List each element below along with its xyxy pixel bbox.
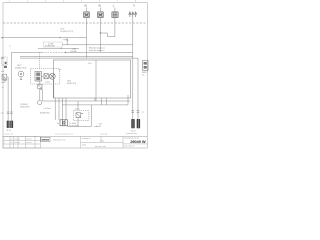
fuse F2 left dark bbox=[10, 121, 13, 128]
svg-text:4): 4) bbox=[84, 4, 86, 8]
svg-text:1: 1 bbox=[9, 1, 10, 3]
svg-text:29049 W: 29049 W bbox=[130, 139, 146, 144]
solenoid valve M12 symbol bbox=[18, 71, 24, 80]
terminal ticks on left wires bbox=[7, 112, 13, 113]
svg-text:J1 J1: J1 J1 bbox=[6, 130, 11, 132]
svg-text:xx: xx bbox=[9, 46, 11, 48]
wire from U7 right bbox=[68, 125, 92, 127]
svg-text:V: V bbox=[133, 4, 135, 8]
wire horizontal N-line bbox=[1, 37, 87, 39]
svg-text:M-(K7-M7): M-(K7-M7) bbox=[20, 106, 29, 108]
svg-text:xxAxxM: xxAxxM bbox=[94, 125, 101, 128]
wire L bottom right of enclosure bbox=[62, 95, 128, 105]
switch box S1 bbox=[112, 8, 118, 18]
svg-text:xxxx xxxx x xx: xxxx xxxx x xx bbox=[53, 139, 66, 141]
wire below contact bbox=[77, 117, 79, 126]
svg-text:8: 8 bbox=[135, 1, 136, 3]
sensor mark inside B1 bbox=[5, 62, 7, 64]
net label VT2 N-(VR-VT) bbox=[61, 28, 74, 33]
svg-text:N-(VR-VT2.2): N-(VR-VT2.2) bbox=[61, 31, 74, 33]
svg-text:M-(MX-XM): M-(MX-XM) bbox=[45, 46, 55, 48]
svg-text:xxlxx fxx Ixxpxx x: xxlxx fxx Ixxpxx x bbox=[89, 50, 104, 52]
svg-text:x/x: x/x bbox=[59, 69, 61, 71]
label below A3W bbox=[142, 71, 146, 76]
svg-text:xx.x xxx - xxx: xx.x xxx - xxx bbox=[95, 146, 106, 148]
contact box K4 bbox=[84, 8, 90, 18]
wire branch node to S1 drop bbox=[100, 33, 115, 37]
wires from enclosure bottom down bbox=[54, 98, 56, 120]
svg-text:4x: 4x bbox=[142, 75, 144, 77]
off-page arrow on N-line bbox=[1, 37, 3, 39]
svg-text:x.xx.x xx x xx: x.xx.x xx x xx bbox=[124, 146, 135, 148]
label 1M1 bbox=[67, 81, 77, 85]
logo box EPLAN bbox=[41, 137, 50, 141]
dashed drop wire into pump group bbox=[39, 52, 41, 68]
label J7RG/W bbox=[20, 104, 29, 108]
svg-text:xxxxx: xxxxx bbox=[82, 145, 87, 147]
svg-text:Wxxtxxt Ixxpxx xx: Wxxtxxt Ixxpxx xx bbox=[89, 46, 105, 49]
dashed aux contact box K9 bbox=[74, 110, 89, 120]
pump motor circle M bbox=[49, 73, 55, 79]
label VT2 small bbox=[71, 49, 77, 53]
title block outer bbox=[3, 135, 147, 137]
wire from contactor down bbox=[39, 81, 41, 84]
wire continuation to K6 drop bbox=[66, 51, 133, 53]
label beside U7 bbox=[69, 123, 78, 127]
svg-text:xXx: xXx bbox=[1, 71, 4, 73]
left margin dashed sensor box B1 bbox=[2, 57, 8, 65]
svg-text:xx.xx.xx: xx.xx.xx bbox=[14, 142, 20, 144]
value label box 4X/W bbox=[43, 42, 62, 47]
wire branch to lower bus bbox=[40, 90, 43, 102]
svg-text:xxx xxx: xxx xxx bbox=[26, 139, 32, 141]
contact symbol in K9 bbox=[76, 113, 83, 118]
svg-text:4: 4 bbox=[63, 1, 64, 3]
svg-text:x.x: x.x bbox=[142, 111, 144, 113]
revision table bbox=[3, 136, 40, 148]
svg-text:2: 2 bbox=[27, 1, 28, 3]
wire horizontal from left corner bbox=[12, 51, 43, 53]
path text row above title block bbox=[4, 134, 108, 136]
wire pump circle down to heater block bbox=[53, 79, 55, 98]
node on corner line bbox=[65, 52, 66, 53]
revision table text bbox=[4, 139, 32, 145]
svg-text:x (xx): x (xx) bbox=[45, 81, 50, 83]
label M12 bbox=[15, 65, 27, 69]
plug connector W1 (three pins) bbox=[129, 12, 137, 17]
wire from S1 down bbox=[114, 18, 116, 37]
svg-text:M-(MX-XXX): M-(MX-XXX) bbox=[15, 67, 27, 69]
wire left vertical bus bbox=[11, 52, 13, 120]
svg-text:x (4-x): x (4-x) bbox=[63, 39, 69, 41]
wire right vertical rail 2 bbox=[137, 58, 139, 119]
label Mxxtxx Ixxpxx bbox=[89, 46, 105, 52]
wire horizontal mid line bbox=[62, 44, 133, 46]
left plug component X9 bbox=[2, 74, 7, 81]
label under left fuses bbox=[6, 130, 11, 132]
title block divider 1 bbox=[80, 136, 82, 148]
wire from X9 down bbox=[7, 80, 9, 121]
wire right vertical rail 1 bbox=[132, 17, 134, 119]
svg-text:xx.xx.xxx: xx.xx.xxx bbox=[100, 134, 107, 136]
terminal marks on right rails bbox=[132, 111, 140, 112]
coupling symbol bbox=[44, 74, 48, 79]
wires dropping from partition area bbox=[91, 105, 93, 127]
svg-text:xx: xx bbox=[2, 87, 4, 89]
svg-text:7: 7 bbox=[117, 1, 118, 3]
contact box K6 bbox=[98, 8, 104, 18]
title block divider 2 bbox=[122, 136, 124, 148]
svg-text:xxx xxx: xxx xxx bbox=[26, 142, 32, 144]
terminal box below B1 bbox=[4, 66, 7, 68]
enclosure partition line bbox=[95, 60, 97, 101]
dashed continuation of corner line bbox=[42, 51, 66, 53]
svg-text:6: 6 bbox=[99, 1, 100, 3]
title block divider 3 bbox=[100, 136, 102, 142]
svg-text:M-(M7-M7): M-(M7-M7) bbox=[40, 112, 50, 114]
pump contactor block bbox=[35, 72, 42, 82]
svg-text:4x: 4x bbox=[57, 123, 59, 125]
label U71 bbox=[94, 124, 102, 129]
svg-text:x 4,7mm: x 4,7mm bbox=[44, 108, 52, 110]
wire drop into aux contact box bbox=[77, 101, 79, 110]
svg-text:N-x: N-x bbox=[89, 63, 92, 65]
wire pair upper rail bbox=[20, 55, 133, 57]
dashed section divider line bbox=[3, 22, 147, 24]
title block right mid horizontal bbox=[123, 143, 147, 145]
inline valve symbol on wire bbox=[38, 84, 42, 88]
svg-text:xx: xx bbox=[11, 139, 13, 141]
wire linking pump parts bbox=[42, 75, 45, 77]
fuse F3 right dark bbox=[131, 119, 134, 128]
svg-text:M-(K1-K7): M-(K1-K7) bbox=[67, 83, 77, 85]
svg-text:xxx: xxx bbox=[1, 113, 4, 115]
wire jog X9 to bus bbox=[7, 77, 8, 80]
off-page arrow at left bbox=[1, 57, 5, 59]
svg-text:xx.xx.xx: xx.xx.xx bbox=[14, 139, 20, 141]
wire pair lower rail with left arrow bbox=[20, 57, 138, 59]
wire from arrow down bbox=[66, 40, 68, 44]
right margin box A3W bbox=[143, 61, 149, 71]
svg-text:3: 3 bbox=[45, 1, 46, 3]
wire valve to flow meter bbox=[39, 89, 41, 101]
svg-text:xxxxxx: xxxxxx bbox=[41, 138, 49, 142]
svg-text:5: 5 bbox=[81, 1, 82, 3]
big enclosure box U2 bbox=[53, 60, 130, 98]
svg-text:xx.4x: xx.4x bbox=[100, 140, 104, 142]
svg-text:(x.xx.xxx.xxx): (x.xx.xxx.xxx) bbox=[126, 133, 137, 135]
svg-text:xx.xx.xx xx.xxx.xx x.xx: xx.xx.xx xx.xxx.xx x.xx bbox=[55, 134, 73, 136]
heater block U7 bbox=[60, 120, 68, 126]
node junction on K6 wire bbox=[100, 32, 101, 33]
drawing frame border bbox=[3, 3, 147, 148]
node on N-line bbox=[59, 37, 60, 38]
wire from K4 down bbox=[86, 18, 88, 59]
svg-text:xx: xx bbox=[11, 142, 13, 144]
title block mid horizontal bbox=[81, 141, 123, 143]
dashed pump group enclosure bbox=[31, 69, 60, 84]
svg-text:4): 4) bbox=[98, 4, 100, 8]
node on lower mid line bbox=[61, 48, 62, 49]
svg-text:x xx.xx / xxx: x xx.xx / xxx bbox=[4, 134, 14, 136]
svg-text:xx.xx.xx xx: xx.xx.xx xx bbox=[82, 138, 91, 140]
sheet column index ticks bbox=[9, 1, 136, 3]
svg-text:xXxx: xXxx bbox=[1, 82, 5, 84]
title block mid texts bbox=[82, 138, 106, 148]
flow sensor circle bbox=[38, 100, 42, 104]
wire horizontal lower mid line bbox=[38, 47, 79, 49]
wire from K6 down bbox=[99, 18, 101, 53]
fuse F4 right dark bbox=[137, 119, 140, 128]
fuse F1 left dark bbox=[7, 121, 10, 128]
reference arrow A bbox=[66, 39, 68, 41]
wire horizontal below enclosure bbox=[43, 100, 131, 102]
